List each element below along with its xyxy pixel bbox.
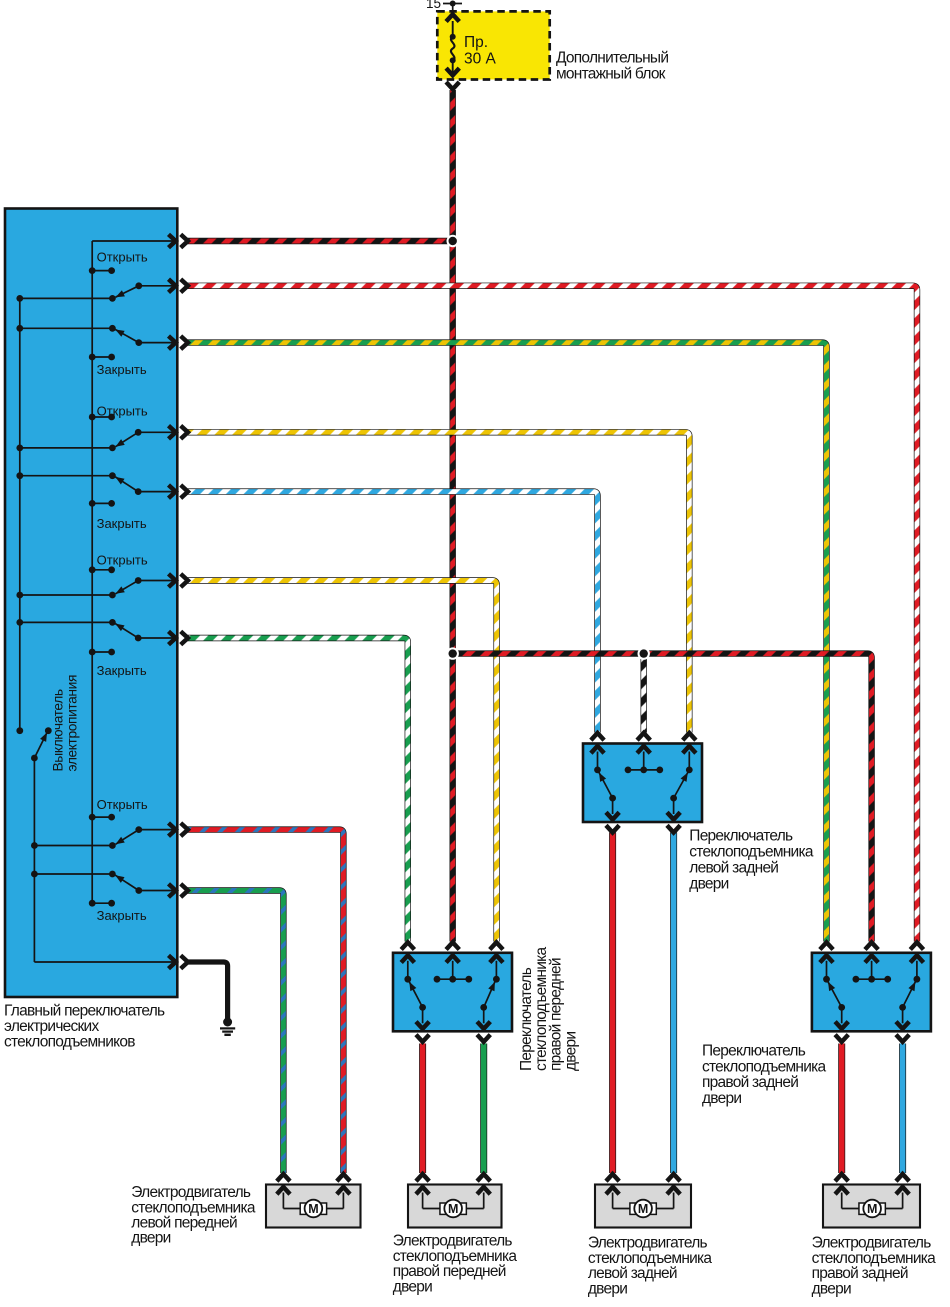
svg-text:Закрыть: Закрыть [97, 663, 147, 678]
svg-text:Закрыть: Закрыть [97, 908, 147, 923]
svg-text:левой задней: левой задней [689, 859, 778, 876]
svg-text:Открыть: Открыть [97, 250, 148, 265]
svg-text:Переключатель: Переключатель [689, 828, 793, 845]
svg-text:Закрыть: Закрыть [97, 516, 147, 531]
svg-text:монтажный блок: монтажный блок [556, 66, 666, 83]
svg-text:двери: двери [689, 875, 728, 892]
svg-text:M: M [638, 1202, 648, 1216]
svg-text:15: 15 [426, 0, 441, 11]
svg-text:Переключатель: Переключатель [702, 1043, 806, 1060]
svg-text:M: M [867, 1202, 877, 1216]
svg-text:Выключательэлектропитания: Выключательэлектропитания [51, 675, 80, 772]
svg-text:Главный переключатель: Главный переключатель [4, 1002, 165, 1019]
svg-text:двери: двери [393, 1278, 432, 1295]
svg-text:Открыть: Открыть [97, 797, 148, 812]
svg-text:двери: двери [131, 1230, 170, 1247]
svg-text:M: M [308, 1202, 318, 1216]
svg-text:M: M [448, 1202, 458, 1216]
svg-text:30 А: 30 А [464, 51, 497, 68]
svg-text:стеклоподъемников: стеклоподъемников [4, 1034, 135, 1051]
svg-text:стеклоподъемника: стеклоподъемника [702, 1058, 827, 1075]
svg-text:Открыть: Открыть [97, 553, 148, 568]
svg-text:Пр.: Пр. [464, 34, 488, 51]
svg-text:двери: двери [588, 1280, 627, 1297]
svg-text:Закрыть: Закрыть [97, 362, 147, 377]
svg-text:стеклоподъемника: стеклоподъемника [689, 843, 814, 860]
svg-text:электрических: электрических [4, 1018, 99, 1035]
svg-text:двери: двери [812, 1280, 851, 1297]
svg-text:двери: двери [702, 1090, 741, 1107]
svg-text:Дополнительный: Дополнительный [556, 49, 668, 66]
svg-text:правой задней: правой задней [702, 1074, 798, 1091]
